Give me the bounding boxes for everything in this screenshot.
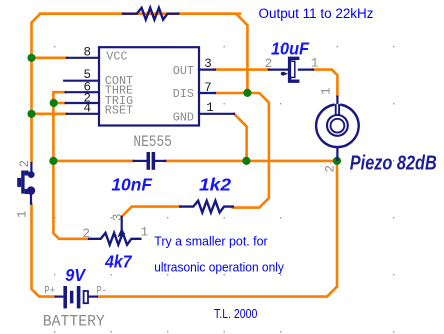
svg-text:DIS: DIS — [173, 87, 194, 101]
svg-text:T.L. 2000: T.L. 2000 — [214, 307, 257, 321]
svg-text:4k7: 4k7 — [104, 252, 132, 272]
svg-text:10nF: 10nF — [111, 174, 153, 194]
svg-text:P-: P- — [97, 285, 107, 297]
svg-text:NE555: NE555 — [133, 133, 172, 151]
svg-text:ultrasonic operation only: ultrasonic operation only — [154, 260, 284, 275]
svg-text:Try a smaller pot. for: Try a smaller pot. for — [154, 234, 268, 249]
svg-text:RSET: RSET — [105, 103, 133, 117]
svg-text:9V: 9V — [65, 265, 86, 285]
svg-text:Output 11 to 22kHz: Output 11 to 22kHz — [259, 6, 374, 21]
svg-text:10uF: 10uF — [271, 39, 310, 59]
svg-text:1: 1 — [311, 56, 319, 70]
svg-text:2: 2 — [18, 160, 32, 168]
svg-text:1: 1 — [16, 210, 30, 218]
svg-text:VCC: VCC — [106, 50, 127, 64]
svg-text:3: 3 — [111, 213, 125, 221]
svg-text:2: 2 — [324, 165, 338, 173]
svg-text:2: 2 — [265, 57, 273, 71]
svg-text:1: 1 — [141, 226, 149, 240]
svg-text:3: 3 — [204, 57, 212, 71]
svg-text:2: 2 — [83, 227, 91, 241]
svg-text:8: 8 — [83, 45, 91, 59]
svg-text:1: 1 — [320, 87, 334, 95]
svg-text:OUT: OUT — [173, 64, 194, 78]
svg-text:1k2: 1k2 — [199, 174, 231, 194]
svg-text:1: 1 — [206, 101, 214, 115]
svg-text:GND: GND — [173, 110, 194, 124]
svg-text:BATTERY: BATTERY — [43, 312, 106, 330]
svg-text:P+: P+ — [44, 285, 55, 297]
svg-text:4: 4 — [83, 101, 91, 115]
svg-text:7: 7 — [204, 81, 212, 95]
svg-text:Piezo 82dB: Piezo 82dB — [350, 152, 437, 174]
